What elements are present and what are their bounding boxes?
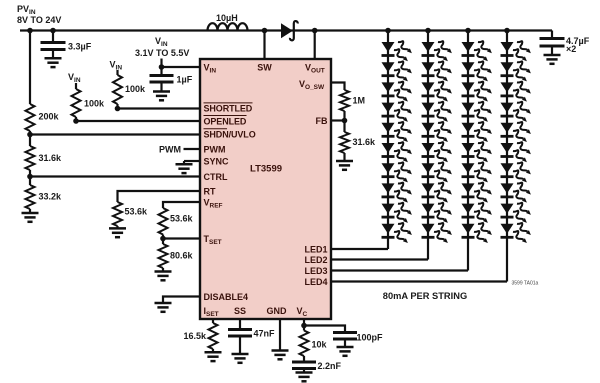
capacitor C 1uF bbox=[160, 67, 162, 75]
LED string 1 diode 6 bbox=[382, 140, 412, 165]
LED string 2 diode 7 bbox=[422, 160, 452, 185]
node SHDN junction bbox=[27, 132, 33, 138]
svg-text:3599 TA01a: 3599 TA01a bbox=[512, 280, 539, 286]
wire PWM bbox=[184, 148, 201, 150]
LED string 4 diode 4 bbox=[501, 100, 531, 125]
resistor 16.5k ISET bbox=[212, 319, 214, 323]
node VC junction bbox=[301, 323, 307, 329]
wire 80.6k to ground bbox=[162, 268, 164, 272]
wire RT res to ground bbox=[116, 226, 118, 228]
ground for DISABLE4 bbox=[155, 302, 172, 305]
wire 100k to SHORTLED bbox=[116, 104, 118, 109]
resistor 200k bbox=[26, 104, 35, 131]
svg-text:FB: FB bbox=[316, 116, 328, 126]
LED string 1 diode 7 bbox=[382, 160, 412, 185]
wire LED1 return bbox=[331, 248, 388, 250]
wire VC pin bbox=[303, 319, 305, 331]
LED string 4 diode 3 bbox=[501, 79, 531, 104]
op-amp U1 LT3599 IC body bbox=[200, 59, 331, 319]
node CTRL junction bbox=[27, 174, 33, 180]
svg-text:3.1V TO 5.5V: 3.1V TO 5.5V bbox=[135, 48, 189, 58]
resistor 31.6k FB bbox=[340, 132, 349, 153]
svg-text:CTRL: CTRL bbox=[204, 172, 228, 182]
resistor 80.6k bbox=[159, 244, 168, 268]
svg-text:2.2nF: 2.2nF bbox=[318, 361, 342, 371]
svg-text:200k: 200k bbox=[39, 112, 60, 122]
wire left rail lower bbox=[29, 170, 31, 185]
wire LED string 2 vertical bbox=[427, 31, 429, 260]
LED string 2 diode 9 bbox=[422, 201, 452, 226]
node FB junction bbox=[342, 118, 348, 124]
ground for 1uF bbox=[153, 90, 170, 93]
LED string 4 diode 7 bbox=[501, 160, 531, 185]
node VOUT junction bbox=[312, 28, 318, 34]
LED string 2 diode 10 bbox=[422, 221, 452, 246]
svg-text:53.6k: 53.6k bbox=[125, 207, 149, 217]
schottky diode D1 bbox=[281, 23, 293, 38]
LED string 3 diode 9 bbox=[462, 201, 492, 226]
capacitor C 4.7uF x2 bbox=[551, 31, 553, 39]
wire FB bbox=[331, 119, 345, 121]
LED string 4 diode 5 bbox=[501, 120, 531, 145]
svg-text:VIN: VIN bbox=[155, 36, 168, 48]
node SHORTLED junction bbox=[115, 106, 121, 112]
ground for 100pF bbox=[337, 346, 354, 349]
svg-text:RT: RT bbox=[204, 186, 216, 196]
wire SYNC bbox=[184, 160, 200, 162]
svg-text:1µF: 1µF bbox=[177, 75, 193, 85]
svg-text:80.6k: 80.6k bbox=[170, 251, 194, 261]
wire VIN pin bbox=[162, 66, 201, 68]
wire left rail mid bbox=[29, 131, 31, 146]
ground for 16.5k bbox=[205, 351, 222, 354]
wire LED4 return bbox=[331, 280, 507, 282]
LED string 3 diode 6 bbox=[462, 140, 492, 165]
resistor 100k openled pullup bbox=[72, 89, 81, 117]
svg-text:3.3µF: 3.3µF bbox=[68, 42, 92, 52]
LED string 4 diode 9 bbox=[501, 201, 531, 226]
ground for 80.6k bbox=[155, 270, 172, 273]
wire 100k to OPENLED bbox=[75, 117, 77, 121]
LED string 3 diode 2 bbox=[462, 59, 492, 84]
svg-text:LED3: LED3 bbox=[304, 266, 327, 276]
wire VIN stub 2 bbox=[116, 70, 118, 75]
svg-text:47nF: 47nF bbox=[254, 329, 276, 339]
svg-text:SS: SS bbox=[234, 306, 246, 316]
svg-text:SHORTLED: SHORTLED bbox=[204, 104, 253, 114]
LED string 2 diode 5 bbox=[422, 120, 452, 145]
wire left rail upper bbox=[29, 31, 31, 105]
LED string 2 diode 3 bbox=[422, 79, 452, 104]
resistor 10k bbox=[300, 331, 309, 357]
svg-text:53.6k: 53.6k bbox=[170, 214, 194, 224]
svg-text:33.2k: 33.2k bbox=[39, 192, 63, 202]
wire OPENLED bbox=[76, 120, 200, 122]
wire CTRL bbox=[30, 175, 200, 177]
wire top rail bbox=[20, 29, 552, 31]
wire LED2 return bbox=[331, 258, 428, 260]
wire SW pin bbox=[263, 31, 265, 60]
LED string 1 diode 8 bbox=[382, 180, 412, 205]
svg-text:31.6k: 31.6k bbox=[353, 137, 377, 147]
wire DISABLE4 bbox=[163, 297, 200, 304]
LED string 3 diode 5 bbox=[462, 120, 492, 145]
LED string 1 diode 1 bbox=[382, 39, 412, 64]
svg-text:10µH: 10µH bbox=[216, 13, 238, 23]
node TSET junction bbox=[160, 236, 166, 242]
inductor L 10uH bbox=[208, 23, 248, 30]
svg-text:LED2: LED2 bbox=[304, 255, 327, 265]
resistor 33.2k bbox=[26, 185, 35, 209]
LED string 3 diode 4 bbox=[462, 100, 492, 125]
resistor 100k shortled pullup bbox=[113, 75, 122, 104]
LED string 1 diode 5 bbox=[382, 120, 412, 145]
svg-text:SYNC: SYNC bbox=[204, 156, 230, 166]
wire VIN stub up bbox=[160, 59, 162, 68]
capacitor C 100pF bbox=[333, 331, 357, 334]
svg-text:VIN: VIN bbox=[68, 72, 81, 84]
wire LED string 3 vertical bbox=[467, 31, 469, 271]
LED string 3 diode 3 bbox=[462, 79, 492, 104]
ground for 33.2k bbox=[22, 212, 39, 215]
svg-text:DISABLE4: DISABLE4 bbox=[204, 292, 249, 302]
svg-text:100pF: 100pF bbox=[357, 333, 384, 343]
svg-text:×2: ×2 bbox=[566, 44, 576, 54]
ground for 4.7uF bbox=[544, 54, 561, 57]
resistor 53.6k VREF bbox=[159, 208, 168, 235]
node LED string 3 top junction bbox=[465, 28, 471, 34]
ground for 3.3uF bbox=[45, 57, 62, 60]
wire 33.2k to ground bbox=[29, 209, 31, 213]
wire RT bbox=[118, 191, 201, 202]
ground for GND pin bbox=[272, 349, 289, 352]
resistor 1M bbox=[340, 90, 349, 111]
svg-text:LT3599: LT3599 bbox=[250, 164, 282, 175]
ground for SYNC bbox=[183, 161, 185, 164]
LED string 2 diode 1 bbox=[422, 39, 452, 64]
LED string 1 diode 2 bbox=[382, 59, 412, 84]
LED string 3 diode 8 bbox=[462, 180, 492, 205]
LED string 3 diode 10 bbox=[462, 221, 492, 246]
LED string 1 diode 3 bbox=[382, 79, 412, 104]
resistor 53.6k RT bbox=[113, 202, 122, 226]
resistor 31.6k left bbox=[26, 146, 35, 170]
svg-text:80mA PER STRING: 80mA PER STRING bbox=[383, 291, 467, 301]
node LED string 4 top junction bbox=[504, 28, 510, 34]
node LED string 2 top junction bbox=[425, 28, 431, 34]
svg-text:PWM: PWM bbox=[159, 144, 181, 154]
LED string 1 diode 9 bbox=[382, 201, 412, 226]
node OPENLED junction bbox=[73, 118, 79, 124]
capacitor C 47nF SS bbox=[239, 319, 241, 329]
svg-text:10k: 10k bbox=[312, 340, 328, 350]
svg-text:GND: GND bbox=[267, 306, 288, 316]
svg-text:SW: SW bbox=[257, 62, 272, 72]
node VIN supply junction bbox=[159, 64, 165, 70]
wire SHORTLED bbox=[118, 107, 201, 109]
LED string 4 diode 8 bbox=[501, 180, 531, 205]
ground for 2.2nF bbox=[296, 371, 313, 374]
wire GND pin bbox=[279, 319, 281, 351]
node LED string 1 top junction bbox=[385, 28, 391, 34]
svg-text:PWM: PWM bbox=[204, 144, 226, 154]
LED string 3 diode 1 bbox=[462, 39, 492, 64]
LED string 4 diode 6 bbox=[501, 140, 531, 165]
svg-text:8V TO 24V: 8V TO 24V bbox=[17, 15, 61, 25]
wire VIN stub bbox=[75, 83, 77, 89]
wire LED3 return bbox=[331, 269, 468, 271]
LED string 3 diode 7 bbox=[462, 160, 492, 185]
wire SHDN/UVLO bbox=[30, 133, 200, 135]
svg-text:OPENLED: OPENLED bbox=[204, 116, 247, 126]
svg-text:SHDN/UVLO: SHDN/UVLO bbox=[204, 130, 256, 140]
LED string 2 diode 2 bbox=[422, 59, 452, 84]
ground for FB divider bbox=[336, 160, 353, 163]
LED string 1 diode 4 bbox=[382, 100, 412, 125]
LED string 2 diode 4 bbox=[422, 100, 452, 125]
svg-text:LED4: LED4 bbox=[304, 277, 327, 287]
LED string 1 diode 10 bbox=[382, 221, 412, 246]
wire LED string 1 vertical bbox=[387, 31, 389, 250]
svg-text:16.5k: 16.5k bbox=[183, 331, 207, 341]
ground for 47nF bbox=[232, 353, 249, 356]
svg-text:100k: 100k bbox=[125, 84, 146, 94]
node SW junction bbox=[262, 28, 268, 34]
wire TSET bbox=[163, 237, 200, 239]
svg-text:VIN: VIN bbox=[110, 60, 123, 72]
node PVIN rail junction bbox=[27, 28, 33, 34]
LED string 4 diode 1 bbox=[501, 39, 531, 64]
capacitor C 3.3uF bbox=[50, 28, 56, 34]
wire to TSET node bbox=[162, 235, 164, 245]
wire LED string 4 vertical bbox=[506, 31, 508, 282]
LED string 4 diode 2 bbox=[501, 59, 531, 84]
wire VOUT pin bbox=[314, 31, 316, 60]
wire 31.6k to ground bbox=[343, 153, 345, 161]
svg-text:1M: 1M bbox=[353, 96, 366, 106]
LED string 4 diode 10 bbox=[501, 221, 531, 246]
wire VO_SW bbox=[331, 83, 345, 91]
wire VREF bbox=[163, 202, 200, 208]
svg-text:31.6k: 31.6k bbox=[39, 153, 63, 163]
LED string 2 diode 8 bbox=[422, 180, 452, 205]
wire 1M to FB node bbox=[343, 111, 345, 132]
ground for RT resistor bbox=[109, 227, 126, 230]
LED string 2 diode 6 bbox=[422, 140, 452, 165]
svg-text:100k: 100k bbox=[84, 99, 105, 109]
svg-text:LED1: LED1 bbox=[304, 244, 327, 254]
capacitor C 2.2nF bbox=[303, 356, 305, 362]
wire VC to 100pF bbox=[304, 326, 345, 333]
